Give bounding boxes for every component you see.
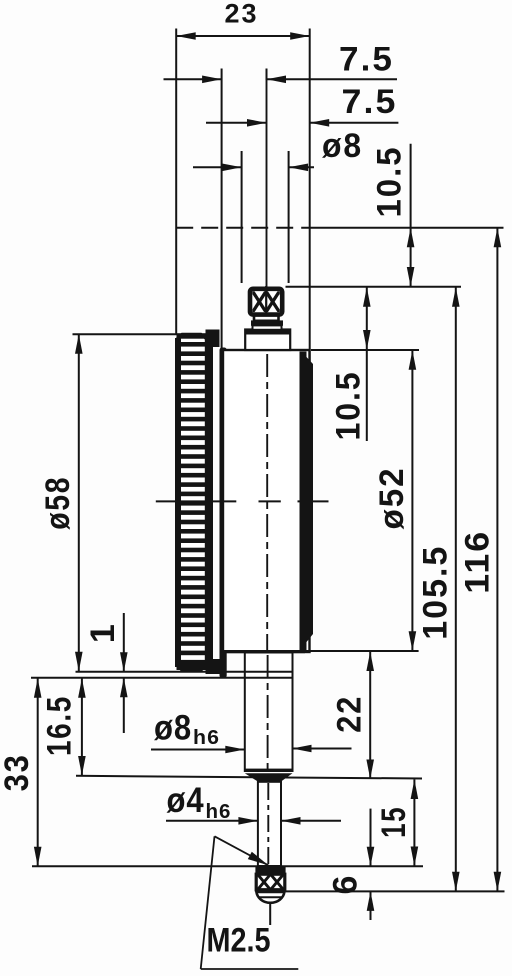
dimension diameter 58 — [39, 334, 83, 671]
contact tip collar — [255, 866, 285, 874]
svg-text:23: 23 — [224, 0, 258, 29]
svg-text:ø58: ø58 — [39, 476, 77, 530]
bezel rim ring — [206, 330, 220, 675]
extension line stem bottom — [76, 776, 422, 779]
dimension 7.5 upper — [164, 41, 398, 84]
svg-text:7.5: 7.5 — [342, 83, 398, 121]
svg-text:h6: h6 — [193, 727, 220, 749]
horizontal centerline — [156, 500, 329, 502]
contact tip knurl — [245, 874, 297, 892]
dimension 1 — [84, 613, 128, 733]
extension line bezel bottom lip1 — [76, 671, 293, 673]
extension line case back — [309, 29, 311, 369]
svg-text:ø52: ø52 — [373, 467, 411, 530]
vertical centerline — [267, 69, 271, 925]
stem boss — [245, 330, 290, 351]
extension line case top — [311, 349, 419, 351]
bezel knurled ring — [175, 333, 207, 670]
svg-text:M2.5: M2.5 — [207, 921, 271, 959]
dimension 10.5 lower — [330, 287, 371, 441]
svg-text:15: 15 — [375, 806, 413, 838]
extension line ball top — [32, 865, 423, 867]
extension line stem axis top — [266, 69, 268, 81]
svg-text:10.5: 10.5 — [371, 146, 409, 218]
dimension diameter 52 — [373, 350, 416, 651]
extension line case front — [221, 69, 223, 351]
dimension 6 — [327, 809, 375, 920]
dimension 15 — [375, 780, 418, 867]
extension line bezel front — [175, 29, 177, 335]
cap flange — [251, 320, 283, 329]
dimension 33 — [0, 678, 42, 866]
contact ball — [256, 892, 284, 903]
stem shank — [245, 653, 293, 773]
svg-text:10.5: 10.5 — [330, 371, 368, 441]
svg-text:ø8: ø8 — [154, 709, 192, 748]
dimension 22 — [331, 652, 375, 780]
case back cover — [300, 352, 314, 652]
dimension 23 — [176, 0, 310, 40]
dimension diameter 4 h6 spindle — [166, 781, 341, 825]
svg-text:116: 116 — [459, 530, 497, 594]
dimension diameter 8 top — [193, 127, 363, 171]
bezel back ring — [220, 348, 227, 679]
dimension 7.5 lower — [206, 83, 398, 127]
svg-text:6: 6 — [327, 874, 365, 895]
svg-text:ø8: ø8 — [322, 127, 363, 165]
cap neck — [254, 314, 279, 321]
svg-text:22: 22 — [331, 695, 369, 733]
extension line bezel top — [73, 333, 178, 335]
svg-text:7.5: 7.5 — [339, 41, 394, 79]
dimension diameter 8 h6 stem — [151, 709, 352, 754]
extension line ball bottom — [280, 890, 505, 892]
extension line cap top — [286, 286, 462, 288]
svg-text:1: 1 — [84, 622, 122, 643]
case body — [223, 350, 310, 653]
extension line stem right — [288, 151, 290, 283]
svg-text:h6: h6 — [206, 801, 232, 823]
extension line case bottom — [304, 650, 419, 652]
svg-text:105.5: 105.5 — [417, 545, 455, 640]
svg-text:16.5: 16.5 — [41, 695, 79, 756]
measuring spindle — [258, 782, 281, 866]
extension line stem left — [241, 151, 243, 283]
top cap knurled button — [239, 286, 293, 315]
dimension 116 — [459, 228, 502, 892]
dimension 10.5 upper — [371, 144, 415, 287]
svg-text:33: 33 — [0, 753, 36, 791]
dimension 105.5 — [417, 287, 460, 891]
extension line bezel bottom lip2 — [31, 677, 293, 679]
dimension 16.5 — [41, 678, 86, 775]
svg-text:ø4: ø4 — [167, 781, 205, 820]
thread callout M2.5 — [201, 836, 299, 969]
dashed travel centerline — [176, 227, 503, 229]
stem chamfer — [245, 773, 293, 782]
